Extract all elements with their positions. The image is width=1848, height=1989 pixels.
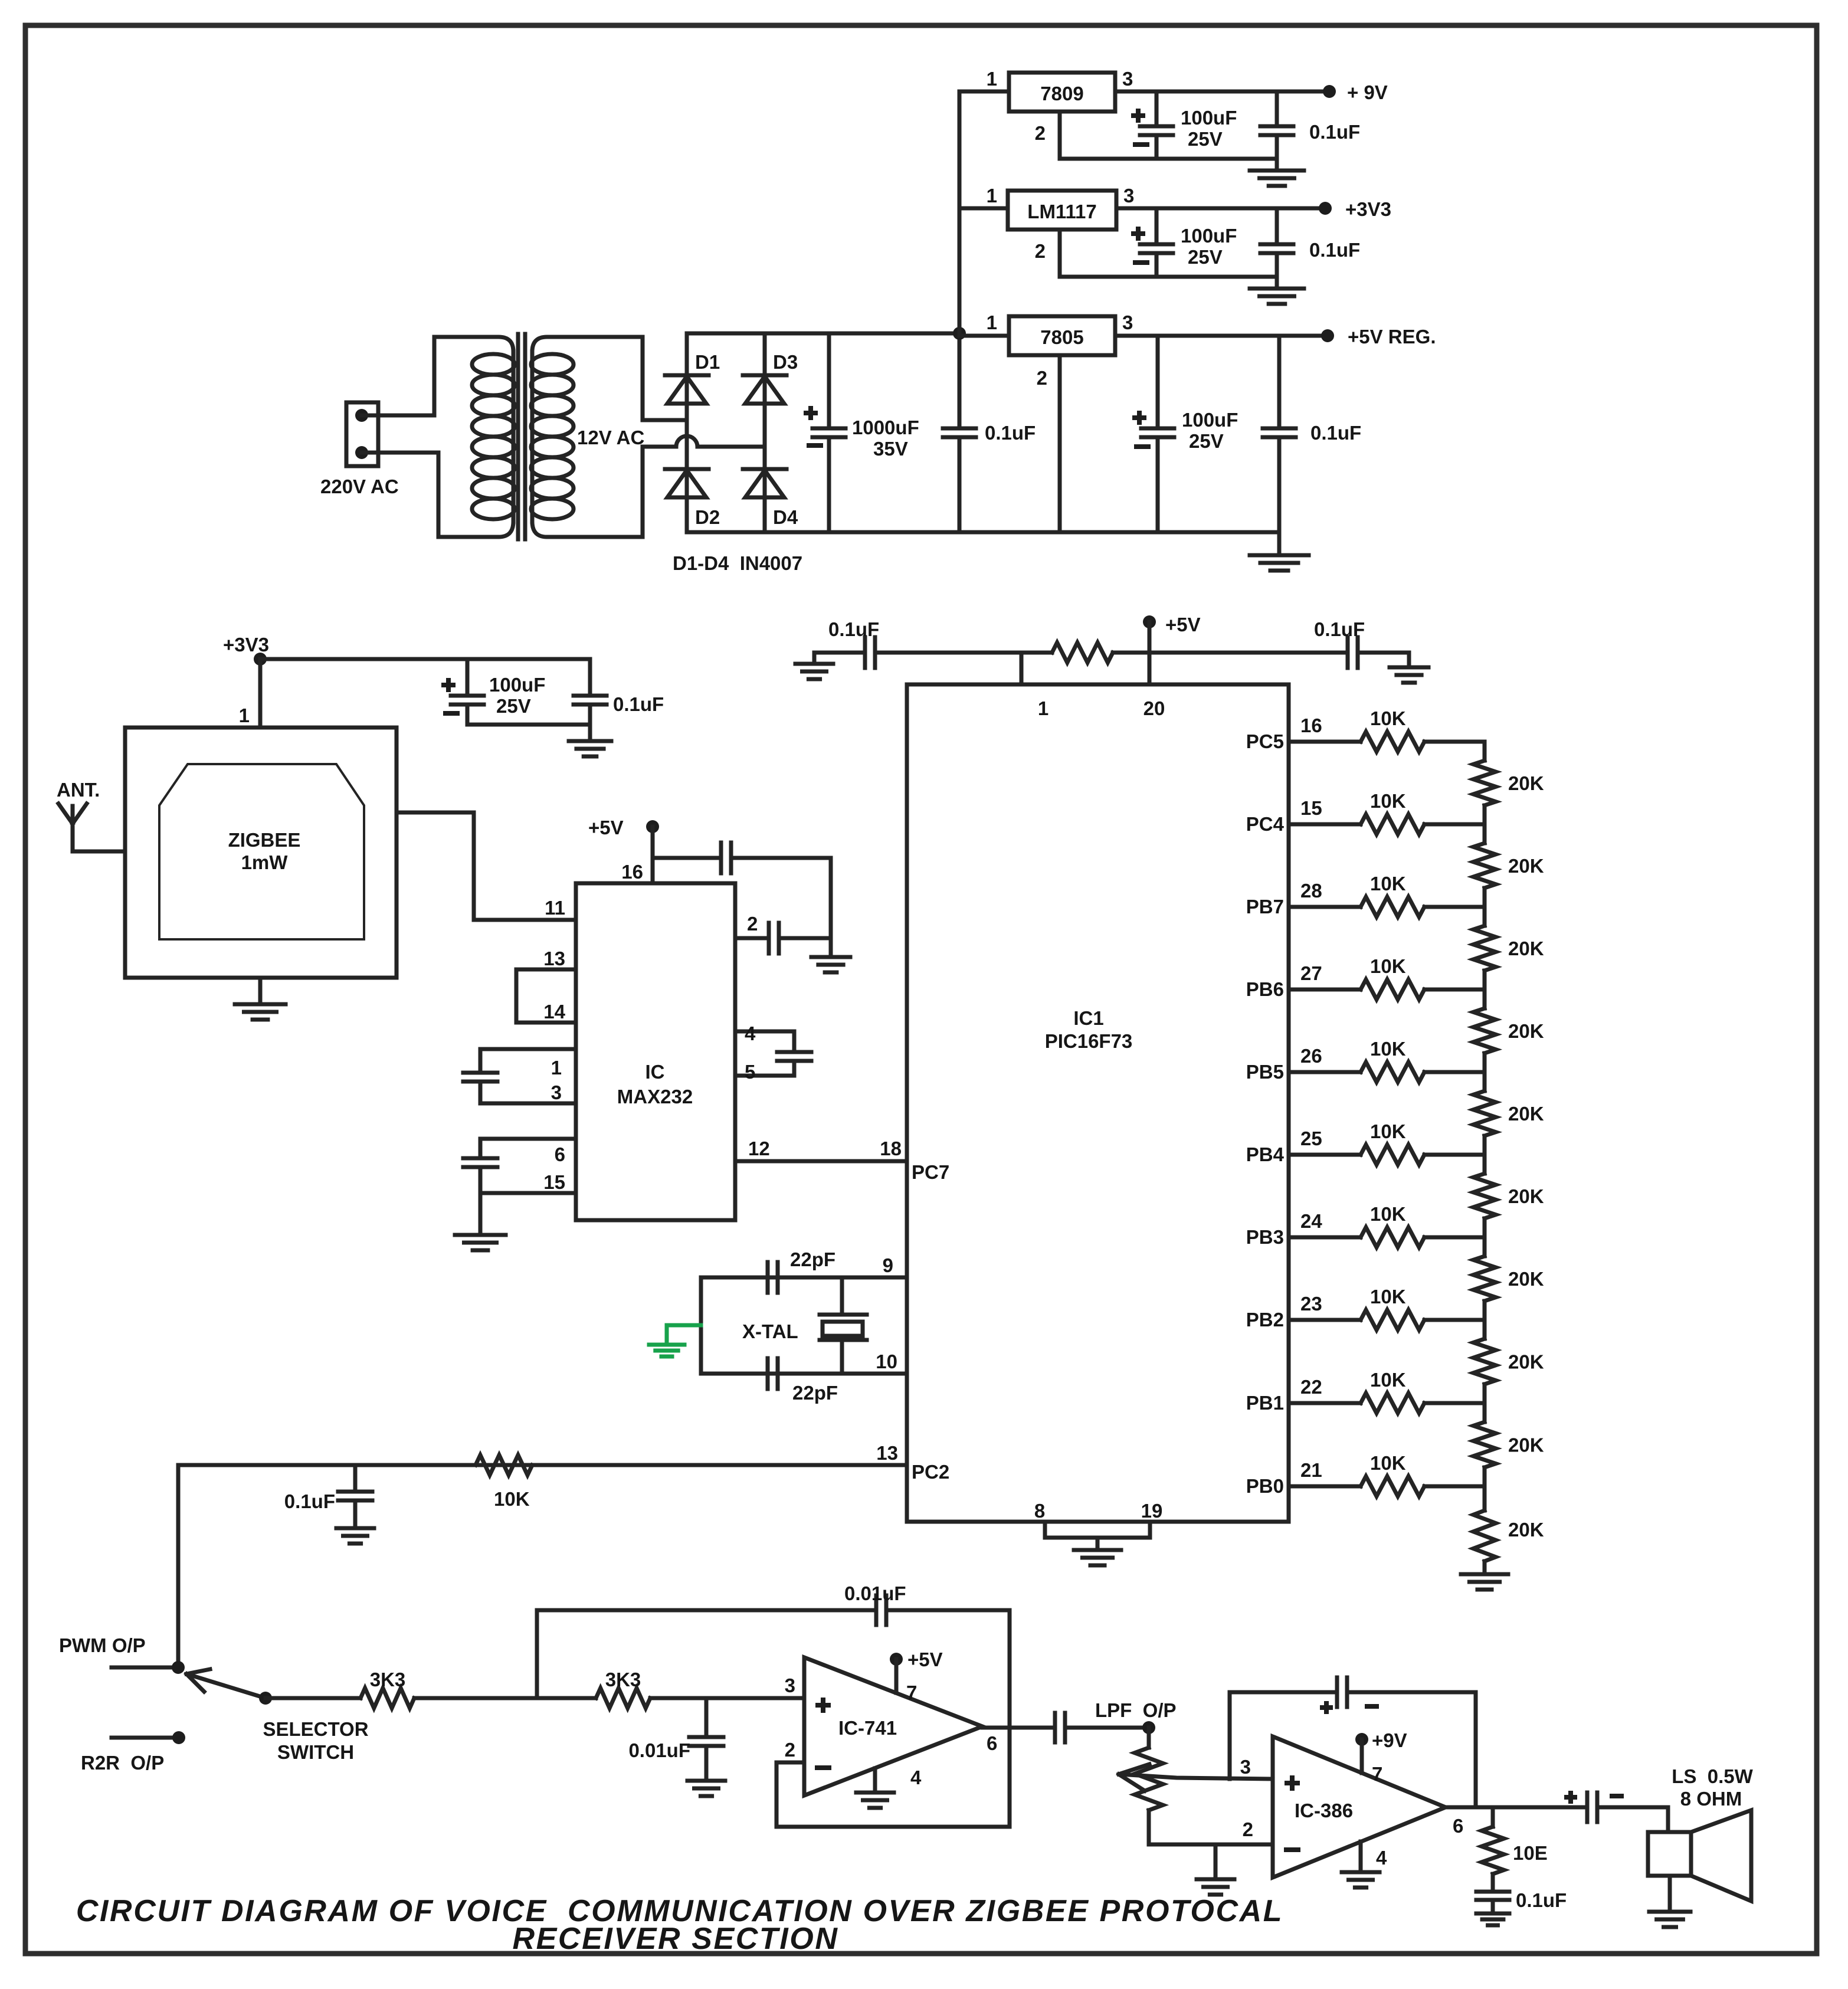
capacitor C23 output coupling [1053,1713,1057,1742]
svg-text:16: 16 [1300,715,1322,736]
svg-text:20K: 20K [1508,938,1544,959]
resistor R3 3K3 [361,1688,414,1708]
svg-text:1: 1 [987,312,997,333]
ground LM1117 rail [1275,277,1279,288]
diode D2 [665,467,709,471]
resistor 20K ladder segment 7 [1483,1237,1487,1256]
svg-text:ZIGBEE: ZIGBEE [228,829,301,851]
wire pin1 7809 input [959,90,1009,94]
svg-text:19: 19 [1141,1500,1163,1522]
svg-text:IC1: IC1 [1073,1007,1103,1029]
wire +3V3 rail [260,657,590,661]
svg-text:27: 27 [1300,962,1322,984]
svg-text:0.1uF: 0.1uF [828,618,879,640]
op-amp U6 IC-741 [804,1657,982,1795]
wire 741 feedback top [537,1608,875,1613]
svg-text:10E: 10E [1513,1842,1548,1864]
capacitor C20 0.1uF on PC2 [353,1465,358,1492]
resistor R2 10K on PC2 [476,1455,532,1475]
svg-text:6: 6 [987,1732,997,1754]
node +5V 741 [890,1653,903,1666]
wire +5V to PIC pin20 [1148,622,1152,684]
node +9V output [1323,85,1336,98]
wire connector to transformer primary top [362,337,434,415]
svg-text:0.1uF: 0.1uF [1309,239,1360,261]
svg-text:10K: 10K [1370,955,1406,977]
svg-text:1: 1 [1038,697,1048,719]
svg-text:PB0: PB0 [1246,1475,1284,1497]
wire bridge right column [763,333,767,532]
transformer T1 primary winding [434,337,513,352]
resistor 20K ladder segment 4 [1483,989,1487,1008]
svg-text:7: 7 [1372,1763,1382,1785]
svg-text:6: 6 [1453,1815,1463,1837]
svg-text:10K: 10K [1370,1286,1406,1308]
svg-text:PC5: PC5 [1246,730,1284,752]
svg-text:PC7: PC7 [912,1161,949,1183]
node +9V 386 [1355,1733,1368,1746]
capacitor C21 0.01uF feedback [874,1595,879,1625]
svg-text:0.1uF: 0.1uF [1309,121,1360,143]
svg-text:15: 15 [543,1171,565,1193]
node +3V3 output [1319,202,1332,215]
capacitor C9 100uF 25V [466,659,470,696]
svg-text:0.1uF: 0.1uF [284,1490,335,1512]
svg-text:8: 8 [1034,1500,1045,1522]
wire zigbee to max232 pin11 [397,812,576,920]
capacitor C5 100uF 25V [1155,208,1159,244]
svg-text:28: 28 [1300,880,1322,902]
svg-text:20K: 20K [1508,1185,1544,1207]
svg-text:3: 3 [551,1082,562,1103]
svg-text:2: 2 [1035,122,1046,144]
svg-text:LPF O/P: LPF O/P [1095,1699,1177,1721]
wire pins 13-14 loop [516,969,576,1023]
svg-text:20K: 20K [1508,1268,1544,1290]
wire crystal left loop [699,1277,703,1374]
ground zigbee module [258,978,263,1004]
svg-text:24: 24 [1300,1210,1322,1232]
resistor 10K on PB3 [1361,1227,1424,1247]
wire connector to transformer primary bottom [362,453,438,537]
svg-text:1: 1 [551,1057,562,1079]
svg-text:+5V: +5V [907,1649,943,1670]
svg-text:PC2: PC2 [912,1461,949,1483]
svg-text:4: 4 [745,1023,756,1044]
node R2R O/P [112,1736,179,1740]
wire R4 to IC741 pin3 [650,1696,804,1700]
IC IC1 PIC16F73 [907,684,1289,1522]
svg-text:20K: 20K [1508,1434,1544,1456]
wire antenna to zigbee [73,850,125,854]
resistor 10K on PB6 [1361,979,1424,1000]
wire pin7 supply stub 386 [1360,1739,1364,1773]
ground main supply rail [1277,532,1282,555]
wire PIC pin 21 PB0 to R2R ladder [1289,1485,1361,1489]
diode D4 [743,467,787,471]
resistor 20K ladder segment 8 [1483,1320,1487,1339]
svg-text:PB6: PB6 [1246,978,1284,1000]
resistor 10K on PB7 [1361,897,1424,917]
svg-text:100uF: 100uF [1182,409,1238,431]
ground 386 pin4 [1342,1870,1380,1875]
wire 7809 local ground rail [1060,157,1277,161]
wire pin2 7809 ground leg [1058,112,1062,159]
svg-text:PIC16F73: PIC16F73 [1045,1030,1133,1052]
svg-text:D2: D2 [695,506,720,528]
potentiometer VR1 [1147,1728,1151,1748]
svg-text:16: 16 [621,861,643,883]
svg-text:10K: 10K [1370,1203,1406,1225]
svg-text:20K: 20K [1508,1519,1544,1541]
resistor 20K ladder segment 6 [1483,1155,1487,1174]
svg-text:PB1: PB1 [1246,1392,1284,1414]
svg-text:18: 18 [880,1138,902,1159]
svg-text:25V: 25V [1188,128,1223,150]
wire pot bottom to 386 pin2 [1149,1843,1273,1847]
crystal X1 X-TAL [840,1277,844,1315]
wire pin4 ground stub [873,1768,877,1791]
svg-text:PB2: PB2 [1246,1309,1284,1331]
speaker LS 0.5W 8 OHM [1648,1832,1691,1876]
wire PIC pin9 OSC1 [701,1276,907,1280]
wire ZIGBEE pin1 [258,659,263,728]
svg-text:2: 2 [1037,367,1047,389]
wire PIC pin 25 PB4 to R2R ladder [1289,1153,1361,1157]
op-amp U7 IC-386 [1273,1736,1446,1877]
svg-text:11: 11 [545,897,565,919]
ground 741 pin4 [856,1791,894,1795]
resistor 10K on PB5 [1361,1062,1424,1082]
wire pins 1-3 loop [480,1049,576,1071]
svg-text:20K: 20K [1508,1020,1544,1042]
capacitor C6 0.1uF [1275,208,1279,244]
wire pin3 7809 output [1115,90,1329,94]
resistor R4 3K3 [596,1688,650,1708]
capacitor C3 100uF 25V [1155,91,1159,126]
svg-text:D1-D4 IN4007: D1-D4 IN4007 [673,552,802,574]
capacitor C22 0.01uF shunt [705,1698,709,1737]
IC U5 MAX232 [576,883,735,1220]
svg-text:23: 23 [1300,1293,1322,1315]
wire to speaker [1600,1807,1668,1832]
ground zobel [1476,1912,1509,1916]
svg-text:X-TAL: X-TAL [742,1320,798,1342]
ground max232 pin2 caps [811,955,850,959]
svg-text:LM1117: LM1117 [1027,201,1096,222]
wire secondary bottom to bridge with hop [643,447,676,537]
wire PIC pin 26 PB5 to R2R ladder [1289,1070,1361,1074]
svg-text:20K: 20K [1508,772,1544,794]
wire pin2 stub [735,936,768,941]
svg-text:14: 14 [543,1001,565,1023]
wire switch to filter [266,1696,361,1700]
ground 7809 rail [1275,159,1279,170]
capacitor C19 22pF bottom [766,1358,770,1389]
svg-text:10K: 10K [1370,1369,1406,1391]
wire PIC pins 8 and 19 ground [1045,1522,1150,1538]
regulator U4 7805 [1009,316,1115,355]
ground 386 input [1214,1844,1218,1879]
wire pin4 ground stub 386 [1359,1841,1363,1871]
wire 386 feedback loop [1230,1692,1336,1779]
wire 386 output [1446,1805,1586,1810]
svg-text:+3V3: +3V3 [223,634,269,656]
svg-text:3: 3 [1122,68,1133,90]
wire 741 output pin6 [982,1726,1054,1730]
svg-text:10K: 10K [1370,790,1406,812]
svg-text:35V: 35V [873,438,908,460]
svg-text:100uF: 100uF [1181,107,1237,129]
resistor 20K ladder segment 9 [1483,1403,1487,1422]
svg-text:1: 1 [239,704,250,726]
svg-text:13: 13 [543,948,565,969]
svg-text:26: 26 [1300,1045,1322,1067]
svg-text:20K: 20K [1508,1351,1544,1373]
wire cap to ground [1358,653,1409,667]
regulator U2 7809 [1009,73,1115,112]
svg-text:10K: 10K [1370,707,1406,729]
svg-text:10K: 10K [1370,1120,1406,1142]
ground zigbee caps [588,725,592,740]
svg-text:9: 9 [883,1254,893,1276]
svg-text:22pF: 22pF [792,1382,838,1404]
wire PIC pin 28 PB7 to R2R ladder [1289,905,1361,909]
resistor R5 10E zobel [1491,1807,1495,1827]
wire pins 4-5 loop [735,1031,794,1051]
resistor 10K on PB2 [1361,1310,1424,1330]
svg-text:4: 4 [910,1767,922,1788]
capacitor C13 pins1-3 [463,1071,497,1075]
svg-text:3: 3 [1240,1756,1251,1778]
svg-text:2: 2 [1243,1818,1253,1840]
wire PIC pin10 OSC2 [701,1372,907,1376]
resistor 20K ladder segment 5 [1483,1072,1487,1091]
wire pin3 7805 output [1115,334,1328,338]
capacitor C24 bootstrap [1335,1677,1339,1707]
node regulator input junction [953,327,966,340]
capacitor C16 0.1uF left of PIC [863,637,867,668]
svg-text:7805: 7805 [1040,326,1083,348]
capacitor C18 22pF top [766,1262,770,1293]
svg-text:0.01uF: 0.01uF [844,1582,906,1604]
svg-text:0.1uF: 0.1uF [985,422,1036,444]
svg-text:+5V: +5V [1165,614,1201,635]
svg-text:SWITCH: SWITCH [277,1741,354,1763]
svg-text:20K: 20K [1508,1103,1544,1125]
svg-text:10K: 10K [494,1488,530,1510]
capacitor C25 0.1uF zobel [1491,1874,1495,1892]
regulator U3 LM1117 [1008,191,1116,230]
wire secondary top to bridge [643,337,687,420]
svg-text:+ 9V: + 9V [1347,81,1388,103]
svg-text:RECEIVER SECTION: RECEIVER SECTION [512,1922,838,1956]
svg-text:3K3: 3K3 [370,1669,406,1690]
svg-text:100uF: 100uF [489,674,545,696]
svg-text:20: 20 [1143,697,1165,719]
wire bottom ground rail [687,530,1279,535]
svg-text:2: 2 [747,913,758,935]
svg-text:25V: 25V [1189,430,1224,452]
wire pin12 to PIC pin18 PC7 [735,1159,907,1164]
capacitor C10 0.1uF [588,659,592,696]
svg-text:25V: 25V [496,695,531,717]
diode D3 [743,373,787,378]
wire PIC pin 15 PC4 to R2R ladder [1289,823,1361,827]
switch SW1 selector arm [192,1676,266,1698]
capacitor C4 0.1uF [1275,91,1279,126]
wire cap to pin1 riser [875,651,1052,655]
svg-text:10K: 10K [1370,1452,1406,1474]
svg-text:25: 25 [1300,1128,1322,1149]
svg-text:100uF: 100uF [1181,225,1237,247]
svg-text:1: 1 [987,185,997,207]
wire bridge left column [685,333,689,532]
wire feedback riser left [535,1610,539,1698]
wire PIC pin 16 PC5 to R2R ladder [1289,740,1361,744]
svg-text:D1: D1 [695,351,720,373]
svg-text:3: 3 [1123,185,1134,207]
svg-text:SELECTOR: SELECTOR [263,1718,368,1740]
svg-text:PB7: PB7 [1246,896,1284,918]
capacitor C1 1000uF 35V [827,333,831,428]
svg-text:7: 7 [906,1682,917,1703]
ground left 0.1uF [812,653,817,663]
svg-text:LS 0.5W: LS 0.5W [1672,1765,1753,1787]
svg-text:MAX232: MAX232 [617,1086,693,1107]
svg-text:4: 4 [1376,1847,1387,1869]
wire PIC pin 22 PB1 to R2R ladder [1289,1401,1361,1405]
svg-text:2: 2 [785,1739,795,1761]
svg-text:13: 13 [876,1442,898,1464]
wire pin2 LM1117 ground leg [1058,230,1062,277]
svg-text:+5V: +5V [588,817,624,838]
wire pins 6-15 loop [480,1139,576,1158]
svg-text:12: 12 [748,1138,770,1159]
capacitor C12 on pin2 [767,923,771,953]
svg-text:21: 21 [1300,1459,1322,1481]
connector J1 220V AC input [346,402,378,466]
svg-text:ANT.: ANT. [57,779,100,801]
ground C22 [687,1779,725,1783]
wire cap to ground riser [829,858,833,956]
svg-text:22: 22 [1300,1376,1322,1398]
svg-text:PC4: PC4 [1246,813,1285,835]
svg-text:0.1uF: 0.1uF [1310,422,1361,444]
svg-text:PB4: PB4 [1246,1143,1285,1165]
resistor 20K ladder segment 3 [1483,907,1487,926]
svg-text:1000uF: 1000uF [852,417,919,438]
wire PIC pin13 PC2 to PWM node [178,1465,907,1667]
wire pin1 LM1117 input [959,207,1008,211]
module ZIGBEE 1mW [125,728,397,978]
svg-text:3: 3 [785,1675,795,1696]
wire pin2 7805 ground leg [1058,355,1062,532]
svg-text:10K: 10K [1370,873,1406,894]
wire PIC pin 24 PB3 to R2R ladder [1289,1236,1361,1240]
resistor 20K ladder segment 2 [1483,824,1487,843]
svg-text:3K3: 3K3 [605,1669,641,1690]
transformer T1 secondary winding [532,337,643,352]
svg-text:20K: 20K [1508,855,1544,877]
svg-text:PWM O/P: PWM O/P [59,1634,146,1656]
svg-text:PB3: PB3 [1246,1226,1284,1248]
capacitor C15 pins4-5 [777,1050,811,1054]
svg-text:+9V: +9V [1372,1729,1407,1751]
svg-text:1mW: 1mW [241,851,289,873]
svg-text:IC: IC [646,1061,665,1083]
wire PIC pin 23 PB2 to R2R ladder [1289,1318,1361,1322]
wire +5V top rail [814,651,864,655]
svg-text:1: 1 [987,68,997,90]
resistor 10K on PC4 [1361,814,1424,834]
resistor 20K ladder bottom [1483,1486,1487,1510]
svg-text:3: 3 [1122,312,1133,333]
wire junction to 7805 and risers [959,334,1009,338]
ground R2R ladder [1461,1572,1508,1577]
wire LM1117 local ground rail [1060,275,1277,279]
resistor 10K on PB1 [1361,1393,1424,1413]
resistor 20K ladder segment 1 [1483,742,1487,761]
svg-text:D4: D4 [773,506,798,528]
node LPF O/P [1142,1721,1155,1734]
svg-text:PB5: PB5 [1246,1061,1284,1083]
capacitor C11 on pin16 [653,856,720,860]
svg-text:0.1uF: 0.1uF [1516,1889,1567,1911]
wire resistor to +5V node [1113,651,1346,655]
wire R3 to R4 [414,1696,596,1700]
pot wiper arrow [1120,1774,1273,1779]
svg-text:0.01uF: 0.01uF [628,1739,690,1761]
svg-text:22pF: 22pF [790,1249,835,1270]
capacitor C7 100uF 25V [1156,336,1160,428]
svg-text:IC-386: IC-386 [1295,1800,1353,1821]
node +5V PIC [1143,615,1156,628]
wire pin16 supply [651,827,655,883]
svg-text:10: 10 [876,1351,897,1372]
capacitor C8 0.1uF [1277,336,1282,428]
wire pin3 LM1117 output [1116,207,1325,211]
capacitor C2 0.1uF [958,333,962,428]
resistor R1 MCLR pullup [1052,643,1113,663]
resistor 10K on PC5 [1361,732,1424,752]
ground speaker [1668,1876,1672,1911]
svg-text:8 OHM: 8 OHM [1680,1788,1742,1810]
wire green ground link [667,1323,701,1328]
wire PIC pin 27 PB6 to R2R ladder [1289,988,1361,992]
svg-text:12V AC: 12V AC [577,427,644,448]
svg-text:25V: 25V [1188,246,1223,268]
wire 100uF bottom link [467,723,590,727]
wire pin7 supply stub [894,1659,899,1693]
capacitor C17 0.1uF right of PIC [1346,637,1350,668]
svg-text:D3: D3 [773,351,798,373]
svg-text:R2R O/P: R2R O/P [81,1752,164,1774]
svg-text:7809: 7809 [1040,83,1083,104]
svg-text:5: 5 [745,1061,755,1083]
svg-text:+5V REG.: +5V REG. [1348,326,1436,348]
svg-text:IC-741: IC-741 [838,1717,897,1739]
svg-text:10K: 10K [1370,1038,1406,1060]
resistor 10K on PB0 [1361,1476,1424,1496]
svg-text:+3V3: +3V3 [1345,198,1391,220]
capacitor C26 speaker coupling [1585,1793,1590,1822]
svg-text:220V AC: 220V AC [320,476,399,497]
transformer T1 core [516,334,520,539]
resistor 10K on PB4 [1361,1145,1424,1165]
diode D1 [665,373,709,378]
ground green [649,1343,684,1347]
